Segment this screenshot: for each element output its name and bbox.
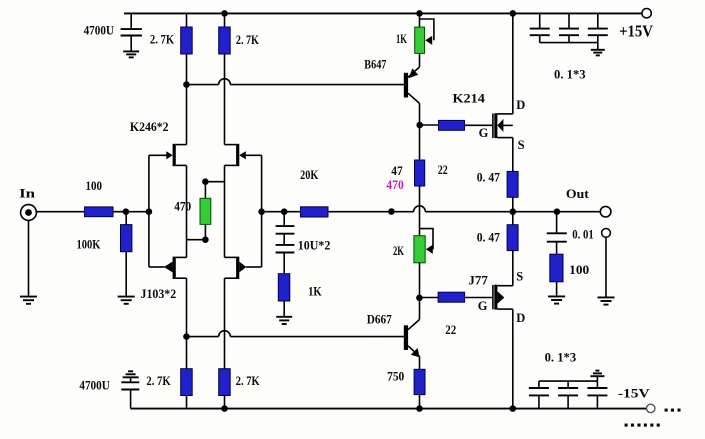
wire D667 base rail with hop [187, 331, 404, 337]
wire R12 to J77 source [512, 251, 514, 286]
resistor R6 1K [278, 274, 290, 317]
node stray dot on output rail [388, 208, 395, 215]
transistor Q2 JFET K246 right [225, 144, 262, 166]
trimmer VR2 1K [415, 13, 434, 53]
ground under C1 [123, 51, 139, 57]
4700U label top [84, 24, 114, 38]
svg-text:G: G [479, 126, 489, 140]
svg-text:1K: 1K [396, 32, 407, 46]
wire K214 source down [512, 138, 514, 172]
svg-text:100: 100 [86, 179, 103, 193]
svg-text:D667: D667 [367, 313, 392, 327]
svg-text:0. 47: 0. 47 [477, 171, 500, 185]
wire right column to bottom resistor [224, 278, 226, 369]
output return terminal [602, 229, 611, 238]
svg-text:J103*2: J103*2 [141, 287, 177, 301]
G label J77 [478, 299, 488, 313]
node top rail trimmer junction [416, 10, 423, 17]
svg-text:+15V: +15V [619, 21, 654, 40]
D label K214 [516, 98, 525, 112]
node top rail junction right 2.7K [221, 10, 228, 17]
resistor R4 100K [121, 212, 132, 297]
K246*2 label [130, 120, 169, 134]
transistor Q5 B647 [404, 53, 420, 160]
capacitor bank 0.1*3 bottom [529, 377, 608, 409]
ground input [20, 297, 37, 304]
2.7K label bottom-left [146, 374, 170, 388]
capacitor bank 0.1*3 top [530, 13, 608, 49]
node bottom rail 2.7K junction [221, 405, 228, 412]
22 label top [438, 163, 448, 177]
0.01 label [572, 228, 594, 242]
trimmer VR3 2K [414, 229, 433, 298]
svg-text:4700U: 4700U [79, 379, 109, 393]
svg-text:1K: 1K [308, 285, 322, 299]
wire K214 drain up [512, 13, 514, 114]
svg-text:470: 470 [386, 178, 404, 192]
wire R11 to output rail [512, 197, 514, 224]
svg-text:2. 7K: 2. 7K [146, 374, 170, 388]
trimmer VR1 470 [200, 198, 211, 224]
wire left column to bottom resistor [186, 278, 188, 369]
node output rail R11 [510, 208, 517, 215]
10U*2 label [298, 239, 331, 253]
output terminal [600, 206, 611, 217]
ground 100K [118, 297, 135, 304]
svg-text:2K: 2K [393, 244, 404, 258]
svg-text:2. 7K: 2. 7K [236, 33, 259, 47]
wire right gate line [261, 155, 263, 267]
svg-text:2. 7K: 2. 7K [236, 374, 260, 388]
svg-text:750: 750 [387, 369, 404, 383]
wire gate resistor bottom link [419, 297, 438, 299]
470 label magenta [386, 178, 404, 192]
-15V rail wire [131, 408, 647, 410]
resistor R7 2.7K bottom-left [181, 369, 193, 409]
wire R9 through hop to 2K [419, 186, 421, 236]
ground 0.1*3 top [591, 50, 605, 56]
wire to J77 gate [465, 297, 493, 299]
resistor R15 100 [550, 254, 563, 296]
22 label bottom [445, 323, 456, 337]
resistor R8 2.7K bottom-right [219, 369, 231, 409]
svg-text:▪▪▪: ▪▪▪ [664, 403, 683, 417]
S label K214 [518, 138, 525, 152]
wire to K214 gate [465, 124, 493, 126]
svg-text:0. 1*3: 0. 1*3 [545, 351, 577, 365]
K214 label [453, 92, 486, 106]
wire gate resistor top link [420, 124, 439, 126]
0.47 label top [477, 171, 500, 185]
svg-text:100: 100 [569, 263, 589, 277]
transistor Q4 JFET J103 right [225, 257, 262, 279]
wire B647 base rail with hop [187, 79, 404, 85]
node trimmer top [202, 178, 209, 185]
S label J77 [516, 270, 523, 284]
svg-text:22: 22 [445, 323, 456, 337]
node rail2 junction [183, 81, 190, 88]
resistor R1 2.7K top-left [181, 13, 193, 144]
4700U label bottom [79, 379, 109, 393]
svg-text:-15V: -15V [618, 387, 650, 401]
svg-text:2. 7K: 2. 7K [150, 32, 174, 46]
svg-text:K246*2: K246*2 [130, 120, 169, 134]
wire return terminal down [605, 237, 607, 297]
node top rail K214 drain [510, 10, 517, 17]
svg-text:0. 01: 0. 01 [572, 228, 594, 242]
resistor R2 2.7K top-right [219, 13, 231, 144]
svg-text:4700U: 4700U [84, 24, 114, 38]
svg-text:S: S [516, 270, 523, 284]
svg-text:S: S [518, 138, 525, 152]
svg-text:Out: Out [566, 187, 590, 201]
node cap junction [281, 208, 288, 215]
+15V label [619, 21, 654, 40]
wire left column sources [186, 165, 188, 257]
wire right column sources [224, 165, 226, 257]
-15V terminal [647, 404, 655, 412]
capacitor C1 4700U top [121, 13, 142, 51]
wire 20K to output rail with hop [328, 206, 600, 212]
0.1*3 label bottom [545, 351, 577, 365]
resistor R13 22 bottom [438, 292, 465, 302]
In label [19, 186, 35, 200]
resistor R12 0.47 bottom [507, 225, 518, 251]
node input junction [123, 208, 130, 215]
100K label [77, 237, 101, 251]
resistor R10 22 top [439, 120, 465, 130]
1K label trimmer [396, 32, 407, 46]
ground zobel [548, 296, 565, 303]
resistor R5 20K [301, 207, 329, 217]
capacitor C3 4700U bottom [121, 378, 139, 409]
svg-text:0. 1*3: 0. 1*3 [554, 68, 586, 82]
svg-text:20K: 20K [300, 168, 318, 182]
transistor Q1 JFET K246 left [149, 144, 187, 166]
wire trimmer top link [205, 182, 224, 199]
svg-text:D: D [516, 98, 525, 112]
ground 0.1*3 bottom [590, 371, 604, 377]
470 label [174, 199, 191, 213]
node rail3 junction [183, 333, 190, 340]
100 label [86, 179, 103, 193]
wire input to R3 [36, 211, 84, 213]
svg-text:B647: B647 [364, 58, 386, 72]
0.47 label bottom [477, 231, 500, 245]
svg-text:470: 470 [174, 199, 191, 213]
resistor R11 0.47 top [507, 171, 518, 197]
ground 1K [276, 317, 292, 324]
resistor R3 100 [85, 207, 114, 217]
svg-text:47: 47 [391, 164, 402, 178]
20K label [300, 168, 318, 182]
+15V rail wire [124, 12, 642, 14]
2.7K label top-right [236, 33, 259, 47]
2K label [393, 244, 404, 258]
100 label zobel [569, 263, 589, 277]
svg-text:G: G [478, 299, 488, 313]
J77 label [468, 274, 487, 288]
2.7K label top-left [150, 32, 174, 46]
ground return terminal [598, 297, 615, 304]
wire trimmer bottom link [187, 224, 206, 239]
resistor R14 750 [414, 369, 425, 408]
svg-text:In: In [19, 186, 35, 200]
Out label [566, 187, 590, 201]
svg-text:D: D [516, 311, 525, 325]
D label J77 [516, 311, 525, 325]
node bottom rail J77 drain [510, 405, 517, 412]
svg-text:10U*2: 10U*2 [298, 239, 331, 253]
750 label [387, 369, 404, 383]
resistor R9 47 [415, 160, 425, 186]
node right gate junction [258, 208, 265, 215]
transistor Q3 JFET J103 left [149, 257, 187, 279]
node D667 collector junction [416, 295, 423, 302]
0.1*3 label top [554, 68, 586, 82]
47 label [391, 164, 402, 178]
2.7K label bottom-right [236, 374, 260, 388]
transistor Q6 D667 [404, 298, 420, 370]
wire input down [28, 220, 30, 296]
node trimmer bottom [202, 236, 209, 243]
svg-text:J77: J77 [468, 274, 487, 288]
svg-text:100K: 100K [77, 237, 101, 251]
mosfet U2 J77 [493, 285, 513, 310]
G label K214 [479, 126, 489, 140]
wire J77 drain down [512, 309, 514, 409]
capacitor C2 10U*2 [276, 212, 295, 274]
svg-text:22: 22 [438, 163, 448, 177]
svg-text:K214: K214 [453, 92, 486, 106]
ground above C3 [123, 371, 139, 377]
mosfet U1 K214 [493, 113, 513, 138]
1K label [308, 285, 322, 299]
-15V label [618, 387, 650, 401]
capacitor C4 0.01 [547, 212, 567, 255]
+15V terminal [642, 9, 651, 18]
B647 label [364, 58, 386, 72]
node output rail zobel [554, 208, 561, 215]
svg-text:▪▪▪▪▪▪: ▪▪▪▪▪▪ [624, 418, 663, 432]
node bottom rail 750 [416, 405, 423, 412]
node B647 collector junction [416, 122, 423, 129]
svg-text:0. 47: 0. 47 [477, 231, 500, 245]
J103*2 label [141, 287, 177, 301]
wire left gate line [148, 155, 150, 267]
D667 label [367, 313, 392, 327]
watermark [624, 403, 683, 432]
input connector J1 [21, 205, 37, 221]
wire R3 to junction [113, 211, 149, 213]
node left gate junction [146, 208, 153, 215]
wire center node to 20K [262, 211, 301, 213]
